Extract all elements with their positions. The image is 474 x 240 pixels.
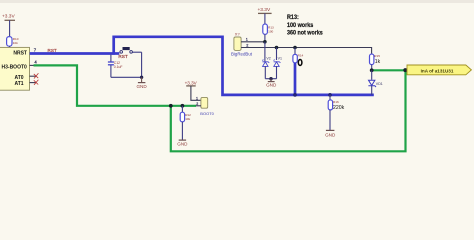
svg-text:GND: GND (325, 132, 336, 137)
port InA of a131U31 (407, 65, 471, 75)
pin 1 of X? (241, 37, 265, 41)
svg-text:GND: GND (177, 142, 188, 147)
junction on green at BOOT0 drop (169, 104, 173, 108)
svg-text:X?: X? (235, 32, 241, 37)
svg-text:NRST: NRST (13, 50, 27, 56)
svg-text:GND: GND (136, 84, 147, 89)
resistor R15 1k (370, 54, 381, 71)
resistor R16 220k (328, 93, 345, 130)
svg-text:V2: V2 (266, 56, 270, 60)
zener V2 (262, 56, 270, 78)
power +3.3V (middle, above R13) (258, 7, 272, 24)
top grey strip (0, 0, 474, 3)
ground (button) (136, 77, 147, 89)
zener V1 (274, 48, 282, 79)
ground (R12) (177, 140, 188, 147)
svg-text:100 works: 100 works (287, 22, 314, 29)
diode VD1 (368, 70, 382, 95)
svg-text:10k: 10k (13, 41, 18, 45)
svg-text:VD1: VD1 (376, 82, 383, 86)
svg-text:100: 100 (268, 30, 273, 34)
junction diodes gnd (269, 77, 272, 80)
svg-text:0.1uF: 0.1uF (114, 65, 123, 69)
svg-text:BOOT0: BOOT0 (200, 111, 214, 116)
ground (220k) (325, 130, 336, 137)
junction R14 / bus (293, 93, 297, 97)
svg-text:220k: 220k (333, 105, 345, 111)
svg-text:R14: R14 (298, 54, 304, 58)
junction green at port (403, 68, 407, 72)
junction R15 / green / VD1 (370, 68, 374, 72)
svg-text:+3.3V: +3.3V (2, 14, 15, 20)
svg-text:RST: RST (118, 54, 128, 59)
svg-text:GND: GND (266, 82, 277, 87)
wire: bus down and along bottom to VD1 (223, 36, 374, 95)
junction pin2 / R14 (293, 46, 297, 50)
svg-text:H3-BOOT0: H3-BOOT0 (2, 64, 28, 70)
wire: R13 down through to V2 (264, 42, 266, 62)
resistor R12 10k (180, 106, 191, 140)
power +3.3V (top-left) (2, 14, 15, 37)
MCU U1 (yellow body, cut at left edge) (0, 47, 30, 90)
wire: green BOOT0 net from pin 4 (30, 64, 35, 66)
wire: thick RST bus from NRST pin (30, 52, 114, 55)
connector BOOT0 (196, 97, 215, 116)
svg-text:R15: R15 (374, 54, 380, 58)
capacitor C12 0.1uF (108, 55, 123, 78)
svg-text:+3.3V: +3.3V (258, 7, 271, 13)
pin 2 of X? (net to R15) (241, 44, 372, 55)
resistor R14 (0 ohm) (293, 48, 304, 95)
resistor R10 (NRST pull-up) (7, 37, 19, 48)
svg-text:R13:: R13: (287, 14, 299, 21)
junction at button gnd (140, 76, 143, 79)
svg-text:10k: 10k (185, 117, 190, 121)
svg-text:1: 1 (196, 97, 198, 101)
wire: button right side down to gnd rail (111, 52, 142, 77)
svg-text:V1: V1 (278, 56, 282, 60)
wire: green drop to bottom rail and to port (171, 70, 406, 151)
wire: bus up-right over button (114, 37, 223, 55)
ground (diodes) (266, 79, 277, 88)
pin AT0 stub with no-connect X (30, 73, 39, 78)
resistor R13 (263, 24, 274, 42)
pin AT1 stub with no-connect X (30, 80, 39, 85)
connector X? BigRedBut (231, 32, 253, 57)
svg-text:1: 1 (246, 37, 248, 41)
svg-text:360 not works: 360 not works (287, 29, 323, 36)
junction pin1 / R13 (263, 40, 267, 44)
svg-text:InA of a131U31: InA of a131U31 (421, 69, 454, 74)
svg-text:+3.3V: +3.3V (185, 81, 198, 86)
power +3.3V (BOOT0) (185, 81, 201, 101)
wire: diode anodes join (265, 78, 276, 80)
junction pin2 / V1 (275, 46, 279, 50)
junction on green at R12 (181, 104, 185, 108)
svg-text:BigRedBut: BigRedBut (231, 52, 253, 57)
annotation text R13 (287, 14, 323, 36)
svg-text:R16: R16 (333, 100, 339, 104)
reset button SB1 (114, 47, 142, 59)
svg-text:AT1: AT1 (15, 81, 24, 87)
svg-text:1k: 1k (375, 59, 381, 65)
